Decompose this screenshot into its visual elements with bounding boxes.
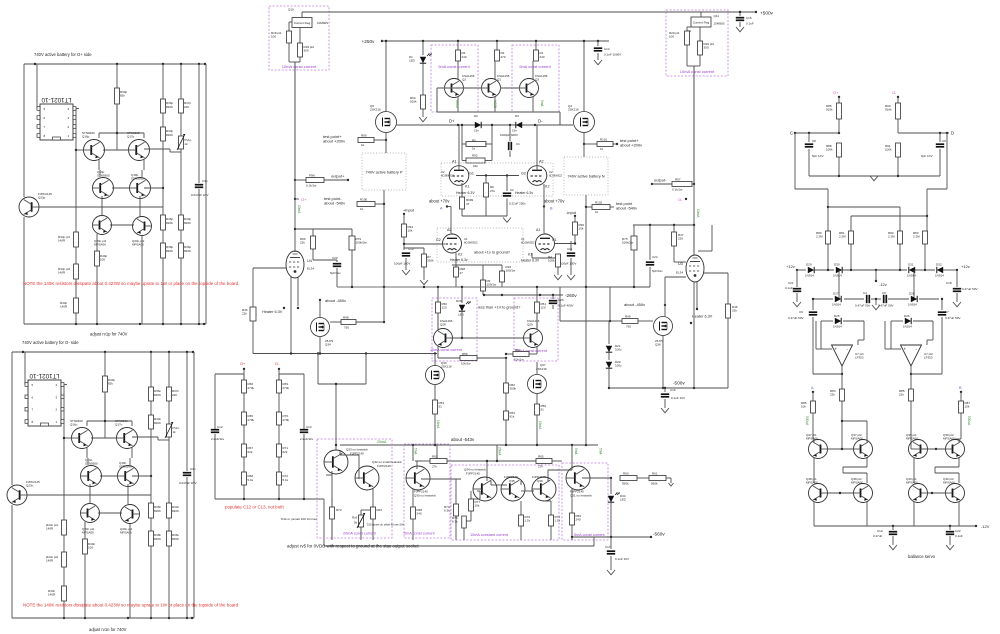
svg-text:820K: 820K xyxy=(184,221,191,225)
resistor R44p pt2 140R xyxy=(75,247,77,264)
svg-text:A1: A1 xyxy=(536,228,540,232)
svg-text:1N914: 1N914 xyxy=(833,325,842,329)
capacitor C6 0.47uF 50V xyxy=(812,299,814,310)
svg-text:240: 240 xyxy=(540,55,545,59)
node junction xyxy=(162,141,164,215)
svg-text:MPSA06: MPSA06 xyxy=(82,531,94,535)
svg-text:R49: R49 xyxy=(625,315,631,319)
svg-text:D+: D+ xyxy=(449,119,455,124)
svg-text:15v: 15v xyxy=(474,129,479,133)
resistor R37n 22K xyxy=(168,352,170,387)
svg-text:740V active battery for O+ sid: 740V active battery for O+ side xyxy=(34,52,92,57)
svg-text:820K: 820K xyxy=(166,105,173,109)
svg-text:C2: C2 xyxy=(510,188,514,192)
svg-text:2.2M: 2.2M xyxy=(913,235,920,239)
lower tube box dotted xyxy=(437,228,523,262)
svg-text:Q31 no heatsink: Q31 no heatsink xyxy=(570,494,592,498)
svg-text:R57: R57 xyxy=(515,348,521,352)
svg-text:0.47uF: 0.47uF xyxy=(873,534,883,538)
transistor Q20n pt2 MPSA06 xyxy=(121,505,140,524)
svg-text:Q23p: Q23p xyxy=(38,196,46,200)
svg-text:270k: 270k xyxy=(283,386,290,390)
resistor R36ap 820k xyxy=(180,230,182,243)
wires quad right bottom xyxy=(913,502,915,526)
svg-text:62k: 62k xyxy=(248,450,253,454)
svg-text:Q35: Q35 xyxy=(509,479,515,483)
svg-text:Heater 6.3V: Heater 6.3V xyxy=(521,259,540,263)
svg-text:2SK216: 2SK216 xyxy=(370,108,381,112)
capacitor C3p 0.047uF 1KV xyxy=(198,64,200,183)
svg-text:2.2uF/1kv: 2.2uF/1kv xyxy=(211,437,225,441)
svg-text:0.047uF 1KV: 0.047uF 1KV xyxy=(179,481,197,485)
svg-text:+input: +input xyxy=(403,208,415,213)
diode D34 LED xyxy=(610,478,612,494)
svg-text:820K: 820K xyxy=(166,133,173,137)
svg-text:1N914: 1N914 xyxy=(908,303,917,307)
svg-text:G2: G2 xyxy=(521,172,526,176)
svg-text:G1: G1 xyxy=(469,172,474,176)
svg-text:22k: 22k xyxy=(732,309,737,313)
resistor R61 560k xyxy=(637,477,649,479)
svg-text:FJPF2145: FJPF2145 xyxy=(466,472,480,476)
svg-text:+12v: +12v xyxy=(961,264,970,269)
wire left mid rail xyxy=(295,228,352,230)
svg-text:O-: O- xyxy=(892,90,897,95)
svg-text:R97: R97 xyxy=(675,178,681,182)
wire K2 down xyxy=(543,184,545,207)
resistor R73 8.2k xyxy=(331,497,333,507)
diode D31 1N914 xyxy=(876,269,907,271)
svg-text:0.1uF 1KV: 0.1uF 1KV xyxy=(615,557,629,561)
svg-text:C14: C14 xyxy=(604,47,610,51)
svg-text:100: 100 xyxy=(669,35,674,39)
wire D down xyxy=(946,133,948,189)
svg-text:0.47uF 50V: 0.47uF 50V xyxy=(788,316,804,320)
svg-text:G2: G2 xyxy=(436,238,441,242)
svg-text:560k: 560k xyxy=(622,482,629,486)
svg-text:R102: R102 xyxy=(595,201,603,205)
svg-text:-12V: -12V xyxy=(981,524,990,529)
svg-text:10mA: 10mA xyxy=(297,205,301,214)
heater bus lower xyxy=(452,264,502,266)
svg-text:C9: C9 xyxy=(942,139,946,143)
node junction xyxy=(150,429,152,503)
svg-text:C17: C17 xyxy=(605,545,611,549)
svg-text:560k: 560k xyxy=(651,482,658,486)
diode D26 1N914 loop xyxy=(891,320,903,322)
svg-text:O+: O+ xyxy=(301,197,307,202)
resistor R9 100/1w xyxy=(482,265,484,280)
grid wires xyxy=(442,243,445,245)
svg-text:R64: R64 xyxy=(377,508,383,512)
top rail wire xyxy=(24,63,206,65)
resistor R39n 82k xyxy=(104,352,106,376)
resistor R46 22k xyxy=(726,304,731,318)
svg-text:0.1uF: 0.1uF xyxy=(785,286,793,290)
svg-text:STN9360: STN9360 xyxy=(97,174,110,178)
svg-text:EL34: EL34 xyxy=(307,267,314,271)
const current box 5mA right xyxy=(562,463,608,540)
svg-text:P9N: P9N xyxy=(309,174,315,178)
svg-text:Q36: Q36 xyxy=(655,343,661,347)
svg-text:C: C xyxy=(790,131,793,136)
svg-text:5mA: 5mA xyxy=(540,100,544,107)
svg-text:6DJ8/6922: 6DJ8/6922 xyxy=(464,240,478,244)
capacitor C14 0.1uF 1000V xyxy=(597,40,599,42)
svg-text:0.22uF 250v: 0.22uF 250v xyxy=(509,202,526,206)
svg-text:Q29: Q29 xyxy=(527,323,533,327)
svg-text:D25: D25 xyxy=(834,314,840,318)
svg-text:1k: 1k xyxy=(360,207,364,211)
svg-text:10mA const current: 10mA const current xyxy=(680,69,715,74)
svg-text:740V active battery for O- sid: 740V active battery for O- side xyxy=(22,340,79,345)
test point+ resistor R101 1k xyxy=(597,142,613,147)
svg-text:5mA const current: 5mA const current xyxy=(438,64,470,69)
svg-text:100v: 100v xyxy=(615,348,622,352)
svg-text:C22: C22 xyxy=(955,529,961,533)
capacitor C19 0.47uF xyxy=(892,526,894,530)
resistor R75 100k/2w xyxy=(633,225,635,236)
transistor Q20p pt1 MPSA06 xyxy=(93,216,112,235)
svg-text:300: 300 xyxy=(704,46,709,50)
svg-text:100k: 100k xyxy=(826,148,833,152)
resistor R44n pt2 140R xyxy=(63,535,65,552)
wire U4 cathode xyxy=(290,277,292,354)
svg-text:100k: 100k xyxy=(548,259,555,263)
mosfet Q36 25J79 xyxy=(654,317,673,336)
svg-text:U4: U4 xyxy=(307,259,312,263)
bottom loop wire xyxy=(324,545,594,547)
svg-text:C7: C7 xyxy=(945,310,949,314)
svg-text:2SK216: 2SK216 xyxy=(441,365,452,369)
resistor R35p 820k xyxy=(161,215,166,230)
capacitor C20 5pF xyxy=(336,260,338,262)
resistor R33p 820k xyxy=(162,113,164,127)
resistor R3 240 xyxy=(457,40,459,42)
transistor Q20p pt2 MPSA06 xyxy=(133,217,152,236)
svg-text:about -540v: about -540v xyxy=(616,206,637,211)
svg-text:1.1k: 1.1k xyxy=(525,519,531,523)
svg-text:820K: 820K xyxy=(154,421,161,425)
resistor R81 2.2M xyxy=(849,231,854,244)
wires Q20 row xyxy=(101,196,103,216)
svg-text:about +200v: about +200v xyxy=(323,139,345,144)
svg-text:820K: 820K xyxy=(184,249,191,253)
svg-text:D23: D23 xyxy=(456,299,462,303)
svg-text:240: 240 xyxy=(462,55,467,59)
resistor R54 51 xyxy=(434,385,436,401)
svg-text:Heater 6.3v: Heater 6.3v xyxy=(450,258,468,262)
current regulator Q11 10M90S xyxy=(666,11,728,13)
resistor R72 5.1k xyxy=(278,457,280,472)
resistor R44p pt1 140R xyxy=(74,232,79,247)
svg-text:-500v: -500v xyxy=(673,381,685,386)
svg-text:LED: LED xyxy=(458,313,465,317)
svg-text:-input: -input xyxy=(566,210,577,215)
svg-text:about +70v: about +70v xyxy=(429,199,450,204)
const current box 10mA left xyxy=(269,6,329,70)
svg-text:6DJ8/6922: 6DJ8/6922 xyxy=(549,173,563,177)
svg-text:1.1k: 1.1k xyxy=(555,519,561,523)
svg-text:10mA const current: 10mA const current xyxy=(282,64,317,69)
resistor R2 470 xyxy=(496,40,498,42)
resistor R50 120 xyxy=(436,302,441,313)
resistor R74 6.3k xyxy=(421,478,461,480)
junction left bus xyxy=(294,228,296,230)
ground rail right xyxy=(809,175,940,177)
svg-text:C15: C15 xyxy=(746,16,752,20)
svg-text:about +200v: about +200v xyxy=(620,143,642,148)
svg-text:0.1k/1w: 0.1k/1w xyxy=(306,184,317,188)
svg-text:15v: 15v xyxy=(512,129,517,133)
svg-text:D2: D2 xyxy=(474,114,478,118)
resistor R82 2.2M xyxy=(898,231,903,244)
resistor R18 pt1 100 xyxy=(289,21,292,23)
tube U3 EL34 xyxy=(686,255,704,282)
capacitor C5 0.47uF 50V xyxy=(883,295,885,303)
const current box 10mA right xyxy=(666,10,728,76)
resistor R85 22k xyxy=(909,389,914,401)
output+ resistor P9N xyxy=(294,179,296,181)
svg-text:FJPF2145: FJPF2145 xyxy=(377,464,391,468)
capacitor C17 0.1uF 1KV xyxy=(610,537,612,549)
svg-text:5.1k: 5.1k xyxy=(283,478,289,482)
svg-text:+250v: +250v xyxy=(362,39,376,44)
O+ magenta xyxy=(294,198,296,200)
wire right mid bus xyxy=(586,286,650,288)
right rail wire xyxy=(205,64,207,324)
svg-text:5pF/1kv: 5pF/1kv xyxy=(652,269,663,273)
svg-text:10k: 10k xyxy=(965,405,970,409)
svg-text:adjust rv5 for 0VDC with respe: adjust rv5 for 0VDC with respect to grou… xyxy=(287,544,419,549)
wire Q20 emitters down xyxy=(129,524,131,618)
svg-text:R65: R65 xyxy=(538,455,544,459)
svg-text:6DJ8/6922: 6DJ8/6922 xyxy=(441,173,455,177)
svg-text:Q17p: Q17p xyxy=(127,135,135,139)
svg-text:Heater 6.3V: Heater 6.3V xyxy=(692,315,713,319)
resistor R52 300k xyxy=(505,358,507,383)
resistor R91 100k xyxy=(896,143,901,157)
resistor R7 330k xyxy=(404,247,424,249)
svg-text:ballance servo: ballance servo xyxy=(908,554,936,559)
resistor R64b xyxy=(371,507,376,519)
svg-text:2.2M: 2.2M xyxy=(888,235,895,239)
svg-text:750: 750 xyxy=(344,326,349,330)
resistor R65 270k xyxy=(243,393,245,412)
resistor R38p 820k xyxy=(162,230,164,243)
svg-text:C8: C8 xyxy=(812,139,816,143)
svg-text:2.2uF/1kv: 2.2uF/1kv xyxy=(300,437,314,441)
svg-text:0.1uF 1KV: 0.1uF 1KV xyxy=(671,396,685,400)
svg-text:240: 240 xyxy=(417,512,422,516)
svg-text:82k: 82k xyxy=(108,382,113,386)
svg-text:1k: 1k xyxy=(472,147,476,151)
svg-text:C19: C19 xyxy=(877,529,883,533)
wire K bus right xyxy=(536,287,538,302)
capacitor C15 0.1uF xyxy=(739,12,741,16)
svg-text:0.47uF 50V: 0.47uF 50V xyxy=(878,304,894,308)
about -450v label left xyxy=(319,299,321,301)
svg-text:LED: LED xyxy=(620,498,627,502)
svg-text:C16: C16 xyxy=(670,388,676,392)
svg-text:22K: 22K xyxy=(184,105,189,109)
svg-text:10k: 10k xyxy=(408,229,413,233)
svg-text:Q30 no heatsink: Q30 no heatsink xyxy=(414,494,436,498)
wire collector link xyxy=(87,420,132,422)
svg-text:R62: R62 xyxy=(432,455,438,459)
resistor R43p 140R xyxy=(75,279,77,298)
-560v rail xyxy=(572,536,651,538)
resistor R92 xyxy=(462,160,466,162)
svg-text:Q17n: Q17n xyxy=(115,423,123,427)
svg-text:C4: C4 xyxy=(863,291,867,295)
wire grid bus xyxy=(476,175,519,177)
svg-text:C12: C12 xyxy=(217,425,223,429)
svg-text:240: 240 xyxy=(576,518,581,522)
capacitor C8 5pF 1KV xyxy=(808,133,810,142)
resistor R47 220 xyxy=(673,225,675,232)
resistor R53 91k xyxy=(505,393,507,411)
svg-text:510 james dc offset kit use 50: 510 james dc offset kit use 504 xyxy=(367,523,405,527)
svg-text:820K: 820K xyxy=(154,393,161,397)
svg-text:140R: 140R xyxy=(58,239,66,243)
svg-text:-12v: -12v xyxy=(879,282,887,287)
svg-text:10M90S: 10M90S xyxy=(714,22,725,26)
resistor R29 pt2 300 xyxy=(699,27,701,41)
svg-text:K2: K2 xyxy=(458,253,462,257)
svg-text:about -543v: about -543v xyxy=(451,437,475,442)
resistor R90b 910k xyxy=(897,97,899,103)
svg-text:1N914: 1N914 xyxy=(903,325,912,329)
svg-text:20mA const current: 20mA const current xyxy=(343,532,377,536)
capacitor C7 0.47uF 50V xyxy=(941,299,943,310)
svg-text:D28: D28 xyxy=(909,292,915,296)
svg-text:100/1w: 100/1w xyxy=(506,269,517,273)
svg-text:22k: 22k xyxy=(830,393,835,397)
svg-text:C24: C24 xyxy=(652,255,658,259)
svg-text:D27: D27 xyxy=(833,292,839,296)
svg-text:1k: 1k xyxy=(185,142,189,146)
op-amp2 wires xyxy=(885,348,901,350)
resistor R84 22k xyxy=(840,389,845,401)
capacitor C4 0.47uF 50v xyxy=(866,295,868,303)
svg-text:0.1k/1w: 0.1k/1w xyxy=(672,188,683,192)
svg-text:about +70v: about +70v xyxy=(544,199,565,204)
svg-text:51: 51 xyxy=(439,405,443,409)
wire IC to base column xyxy=(75,109,77,233)
svg-text:Current Reg: Current Reg xyxy=(294,21,311,25)
svg-text:470: 470 xyxy=(501,55,506,59)
heater pins U3 xyxy=(696,282,698,309)
svg-text:VG05: VG05 xyxy=(493,100,497,108)
wire lower anodes xyxy=(451,233,453,234)
capacitor C3n 0.047uF 1KV xyxy=(186,352,188,471)
wire G1 feed xyxy=(555,243,575,245)
svg-text:740V active battery P: 740V active battery P xyxy=(366,170,403,175)
svg-text:C3n: C3n xyxy=(190,467,196,471)
svg-text:120: 120 xyxy=(541,306,546,310)
capacitor C24 5pF xyxy=(649,225,651,260)
wire K1 resistor R4 100k xyxy=(531,253,533,258)
svg-text:about -540v: about -540v xyxy=(324,201,345,206)
resistor R64 910k xyxy=(422,64,424,96)
resistor R90 22k xyxy=(312,229,314,236)
diode D23 LED xyxy=(461,287,463,303)
resistor R65 27k xyxy=(497,460,536,462)
svg-text:820K: 820K xyxy=(166,249,173,253)
resistor R77 10k xyxy=(470,491,472,499)
svg-text:Q34: Q34 xyxy=(325,343,331,347)
svg-text:R101: R101 xyxy=(600,138,608,142)
svg-text:1N914: 1N914 xyxy=(907,274,916,278)
wire Q20 emitters down xyxy=(141,236,143,324)
svg-text:LT1021-10: LT1021-10 xyxy=(41,96,71,103)
capacitor C9 5pF 1KV xyxy=(939,133,941,142)
wires Q19-Q18 xyxy=(86,447,88,458)
svg-text:LF353: LF353 xyxy=(924,356,933,360)
svg-text:VG05: VG05 xyxy=(455,100,459,108)
svg-text:D31: D31 xyxy=(908,263,914,267)
resistor R83 2.2M xyxy=(923,231,928,244)
svg-text:O-: O- xyxy=(275,361,280,366)
svg-text:D32: D32 xyxy=(936,263,942,267)
wire Q23 base right xyxy=(39,206,163,208)
diode D3 15v xyxy=(516,122,522,128)
svg-text:10k/1w: 10k/1w xyxy=(514,358,524,362)
svg-text:270k: 270k xyxy=(283,418,290,422)
svg-text:100: 100 xyxy=(88,546,93,550)
svg-text:5pF/1kv: 5pF/1kv xyxy=(330,271,341,275)
bottom rail wire xyxy=(12,617,194,619)
svg-text:10k: 10k xyxy=(801,405,806,409)
-12v center xyxy=(875,270,877,281)
resistor R75b 1.1k xyxy=(520,501,522,515)
capacitor C12 2.2uF xyxy=(214,428,216,429)
svg-text:820K: 820K xyxy=(154,509,161,513)
svg-text:0.1uF 400V: 0.1uF 400V xyxy=(558,304,574,308)
row caps diodes xyxy=(838,270,840,299)
transistor Q31 FJPF2145 xyxy=(566,466,590,490)
svg-text:82k: 82k xyxy=(120,94,125,98)
resistor R36an 820k xyxy=(168,518,170,531)
svg-text:Q28: Q28 xyxy=(440,323,446,327)
resistor R55 51 xyxy=(536,394,538,405)
svg-text:5pF 1KV: 5pF 1KV xyxy=(921,154,933,158)
resistor R51 120 xyxy=(535,302,540,313)
svg-text:-260v: -260v xyxy=(565,293,577,298)
svg-text:62k: 62k xyxy=(283,450,288,454)
svg-text:D30: D30 xyxy=(834,263,840,267)
op-amp1 wires xyxy=(816,348,832,350)
wire top feed xyxy=(329,11,666,13)
svg-text:910k: 910k xyxy=(826,108,833,112)
svg-text:+500v: +500v xyxy=(760,11,774,16)
main left bus xyxy=(294,62,296,252)
wire Q23 base right xyxy=(27,494,151,496)
svg-text:about +1v to ground?: about +1v to ground? xyxy=(474,251,510,255)
svg-text:1k: 1k xyxy=(361,143,365,147)
svg-text:Heater 6.3V: Heater 6.3V xyxy=(456,191,475,195)
resistor R36p 820k xyxy=(162,64,164,99)
resistor R69 270k xyxy=(278,374,280,380)
svg-text:R92: R92 xyxy=(472,154,478,158)
svg-text:Q2: Q2 xyxy=(462,78,466,82)
resistor R29 pt1 100 xyxy=(687,30,691,32)
op-amp U7 pt1 LF353 xyxy=(832,345,853,366)
svg-text:LED: LED xyxy=(409,59,416,63)
svg-text:910k: 910k xyxy=(410,100,417,104)
svg-text:C11: C11 xyxy=(567,247,573,251)
